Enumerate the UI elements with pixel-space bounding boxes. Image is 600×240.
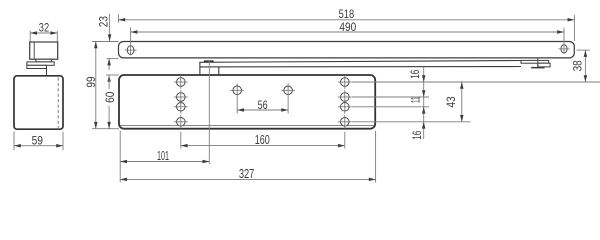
arm pivot block [200,60,219,75]
svg-text:101: 101 [157,149,169,163]
svg-text:59: 59 [32,133,44,147]
arm fixing hole left (middle pair) [230,83,244,97]
arm fixing hole right (middle pair) [281,83,295,97]
dimension 23 (rail offset) [96,14,111,42]
rail fixing hole right [558,45,569,53]
svg-text:38: 38 [570,60,584,71]
svg-text:490: 490 [339,20,356,34]
pinion neck (side view) [35,59,52,62]
fixing holes left column [174,75,188,129]
hole row 4 leader line [352,121,471,123]
mounting plate bottom edge [120,124,375,126]
dimension 43 (hole rows overall) [444,82,463,122]
slide rail [119,42,575,58]
fixing holes right column [338,75,352,129]
dimension 59 (body width) [14,132,63,151]
dimension 99 (rail top to body bottom) [84,42,98,129]
valve collar (side view) [27,62,54,65]
svg-text:60: 60 [103,91,117,102]
lower collar (side view) [27,65,47,76]
dimension 11 (hole rows 2-3) [409,82,426,122]
svg-text:160: 160 [255,133,270,147]
svg-text:32: 32 [39,21,50,35]
svg-text:43: 43 [444,96,458,107]
slide arm lever [199,61,521,67]
dimension 101 (body edge to axis) [120,131,209,183]
rail bottom extension line [107,58,119,60]
hole row 2 leader line [352,96,429,98]
gap dimension shaft (rail to body) [107,59,111,71]
body bottom extension line [92,128,119,130]
arm slider block [521,58,550,69]
dimension 38 (rail axis to first hole row) [570,50,590,82]
dimension 32 (pinion cap width) [30,21,57,42]
svg-text:11: 11 [409,96,423,103]
closer body (side view) [14,76,63,129]
svg-text:23: 23 [96,16,110,27]
dimension 56 (arm hole distance) [237,97,288,113]
rail top extension line [92,41,119,43]
hole row 1 leader line [352,81,600,83]
dimension 518 (overall rail length) [118,7,574,41]
pinion cap (side view) [30,42,58,59]
svg-text:16: 16 [408,69,422,78]
pinion axis line [208,60,210,164]
dimension 327 (body length) [120,131,375,183]
closer body (front view) [119,75,375,129]
svg-text:56: 56 [258,98,268,112]
dimension 60 (body height) [103,75,117,129]
dimension 490 (hole distance) [131,20,564,56]
body top extension line [106,74,119,76]
dimension 16 top (arm to first hole) [408,67,426,82]
dimension 160 (hole columns distance) [181,132,345,149]
svg-text:16: 16 [410,131,424,140]
svg-text:327: 327 [239,167,255,181]
hidden edge dashed line (side view) [57,78,59,129]
rail fixing hole left [125,46,137,55]
hole row 3 leader line [352,106,429,108]
dimension 16 bottom (hole rows 3-4) [410,122,426,140]
svg-text:99: 99 [84,76,98,87]
